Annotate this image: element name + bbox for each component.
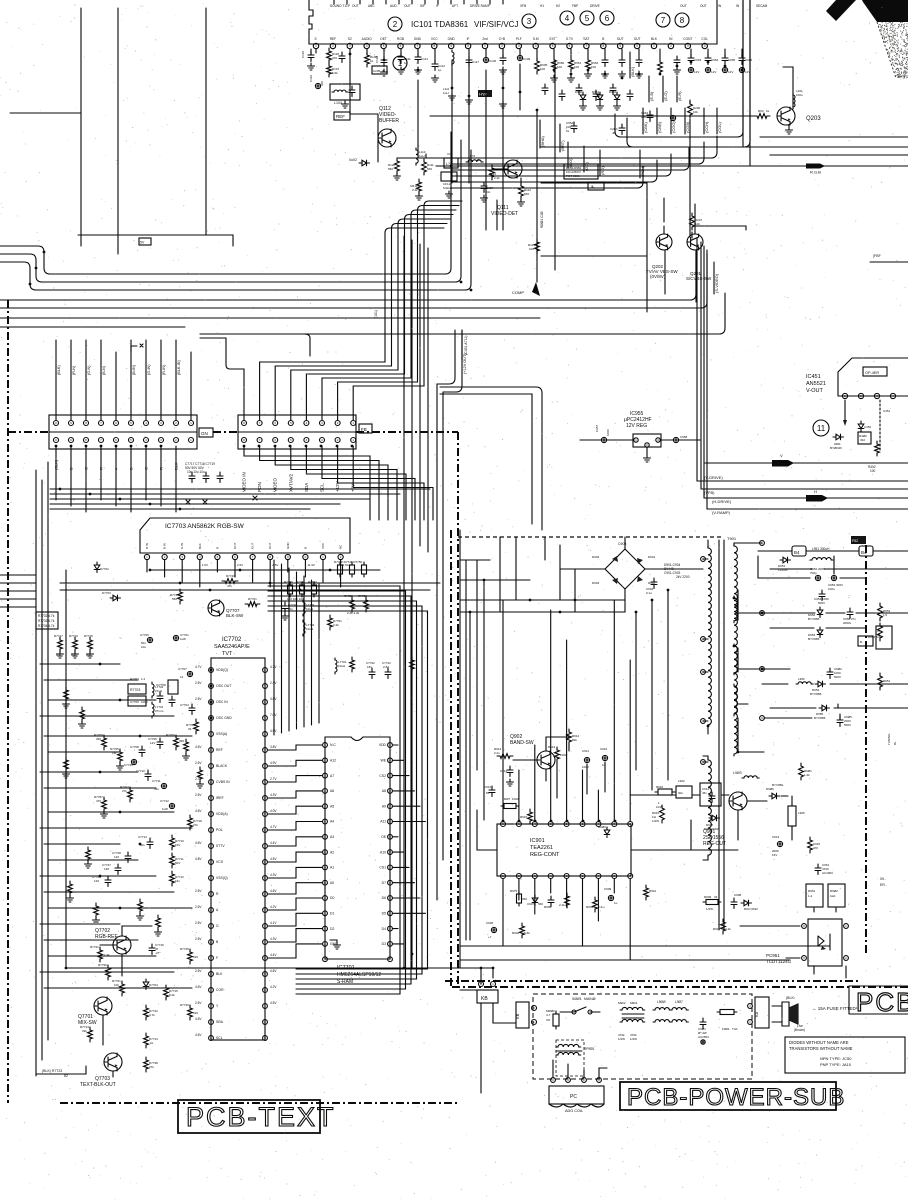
resistor R7724 row right (350, 657, 355, 672)
svg-text:390: 390 (179, 739, 184, 743)
resistor R7721 (98, 947, 103, 962)
label FB box (359, 424, 372, 433)
resistor R7701 (245, 602, 260, 607)
svg-text:D1: D1 (330, 912, 334, 916)
svg-text:12V: 12V (711, 70, 716, 74)
svg-text:L104: L104 (334, 101, 342, 105)
svg-text:AUDIO: AUDIO (362, 37, 373, 41)
PC degauss connector (549, 1086, 604, 1104)
resistor R7722 (144, 1005, 149, 1020)
svg-text:SOUND T.O.P: SOUND T.O.P (330, 4, 350, 8)
svg-text:L902: L902 (678, 779, 685, 783)
IC7702 left pins (209, 668, 214, 1041)
box C- (588, 182, 604, 190)
wire right rect row2 (760, 612, 908, 614)
wire elbow right C (760, 137, 908, 155)
svg-text:H1: H1 (540, 4, 544, 8)
degauss pins row (551, 1078, 556, 1083)
svg-text:RP9Ø1: RP9Ø1 (584, 1047, 595, 1051)
svg-text:D9Ø6: D9Ø6 (766, 787, 774, 791)
svg-text:10uH: 10uH (338, 664, 345, 668)
IC7701 pin labels (330, 743, 387, 946)
svg-text:560: 560 (538, 902, 543, 906)
svg-text:C452: C452 (864, 425, 872, 429)
svg-text:(BRT): (BRT) (560, 140, 565, 151)
svg-text:4.5V: 4.5V (270, 1001, 277, 1005)
net (BO) flag (567, 142, 569, 168)
IC7703 pin voltage labels (202, 563, 349, 567)
capacitors C7727 R7712 (115, 864, 121, 875)
svg-text:BUFFER: BUFFER (379, 118, 399, 124)
svg-text:(CBR): (CBR) (657, 121, 662, 133)
svg-text:PCB: PCB (856, 987, 908, 1017)
svg-text:560: 560 (172, 597, 177, 601)
svg-text:R909: R909 (704, 895, 712, 899)
connector KB2 vertical (516, 1002, 529, 1028)
svg-text:1k: 1k (566, 129, 570, 133)
resistor R962 box (828, 884, 845, 907)
svg-text:A8: A8 (382, 789, 386, 793)
connector CN top pins (54, 421, 194, 426)
svg-text:100: 100 (591, 65, 596, 69)
svg-text:R7790: R7790 (98, 963, 107, 967)
wire line y147 (540, 146, 908, 148)
svg-text:(BHA): (BHA) (540, 135, 545, 147)
svg-text:2.2ω: 2.2ω (598, 905, 605, 909)
svg-text:(G-IN): (G-IN) (147, 364, 151, 375)
svg-text:2.6V: 2.6V (195, 761, 202, 765)
inductor L951 300uH (810, 558, 833, 560)
inductor L7701 27uH (335, 658, 337, 674)
net (E-B) flag (648, 76, 650, 102)
svg-text:27k: 27k (193, 823, 198, 827)
svg-text:COR: COR (216, 988, 224, 992)
svg-text:BLACK: BLACK (216, 764, 228, 768)
svg-text:OUT: OUT (268, 543, 272, 550)
svg-text:2.6V: 2.6V (195, 793, 202, 797)
wire left vertical x118 (117, 8, 119, 254)
inductor L114 (466, 160, 483, 162)
svg-text:47k: 47k (227, 584, 232, 588)
svg-text:2-82: 2-82 (383, 665, 389, 669)
svg-text:VCC: VCC (321, 542, 325, 549)
wire bus L7 lower (200, 293, 725, 334)
svg-text:C114: C114 (421, 57, 428, 61)
svg-text:BYV95E: BYV95E (772, 783, 783, 787)
arrow H flag (806, 495, 828, 502)
svg-text:2.2k: 2.2k (333, 623, 339, 627)
wire power verticals left (470, 537, 545, 940)
svg-text:6: 6 (605, 14, 610, 23)
capacitor C111 (400, 49, 402, 57)
diode D955 BYV95 (819, 705, 830, 711)
svg-text:(COL): (COL) (717, 121, 722, 133)
svg-text:BYV95B: BYV95B (808, 637, 819, 641)
svg-text:GND: GND (448, 37, 456, 41)
svg-text:1000: 1000 (141, 700, 148, 704)
corner black stripe (826, 0, 856, 21)
svg-text:BLK: BLK (651, 37, 658, 41)
svg-text:DIODES WITHOUT NAME ARE: DIODES WITHOUT NAME ARE (789, 1040, 849, 1045)
svg-text:C909: C909 (604, 887, 612, 891)
wires IC7702 to IC7701 (268, 745, 322, 958)
ground below C118 (308, 63, 315, 70)
svg-text:SCL: SCL (216, 1036, 223, 1040)
net (BHA) (539, 120, 541, 148)
connector FB bottom pins (242, 438, 356, 443)
svg-text:BYV95B: BYV95B (814, 716, 825, 720)
svg-text:PON: PON (257, 482, 262, 492)
degauss transformer RP901 (556, 1044, 581, 1047)
svg-text:500V: 500V (844, 723, 851, 727)
svg-text:B IN: B IN (163, 543, 167, 549)
svg-text:F9Ø1: F9Ø1 (722, 1027, 730, 1031)
svg-text:1.2: 1.2 (141, 677, 146, 681)
diode D7703 (110, 595, 121, 601)
svg-text:10k: 10k (693, 110, 698, 114)
arrow V flag (772, 460, 794, 467)
svg-text:S1: S1 (877, 633, 881, 637)
svg-text:VDD: VDD (379, 743, 387, 747)
electrolytic C962 (670, 115, 675, 120)
svg-text:4: 4 (565, 14, 570, 23)
svg-text:2.6V: 2.6V (195, 937, 202, 941)
svg-text:12: 12 (180, 675, 184, 679)
resistor R111 560 (422, 159, 427, 175)
svg-text:390: 390 (96, 737, 101, 741)
svg-text:A3: A3 (330, 835, 334, 839)
svg-text:SAA5246AP/E: SAA5246AP/E (214, 644, 250, 650)
crystal X7701 cluster (168, 680, 178, 694)
resistor R7707 27k (128, 787, 133, 802)
svg-text:A0: A0 (330, 881, 334, 885)
wire FB pin1 route (200, 338, 244, 420)
svg-text:C120: C120 (489, 59, 497, 63)
capacitor C310 360 (315, 83, 320, 88)
svg-text:R7732 4.7k: R7732 4.7k (38, 614, 55, 618)
svg-text:2.6V: 2.6V (195, 681, 202, 685)
capacitor C901 (700, 1018, 706, 1029)
resistor R905 100 (536, 49, 538, 61)
wire Q203 net (430, 67, 793, 116)
IC7702 right pin voltages (270, 665, 277, 1005)
svg-text:(V-DRIVE): (V-DRIVE) (704, 475, 723, 480)
wire bus L1 (0, 132, 451, 274)
connector CN bottom pins (54, 438, 194, 443)
dashed degauss box (556, 1040, 584, 1076)
svg-text:D7703: D7703 (102, 591, 111, 595)
resistors R7752 R7753 (350, 597, 355, 612)
svg-text:AUD: AUD (390, 4, 397, 8)
svg-text:27k: 27k (122, 789, 127, 793)
svg-text:C7711: C7711 (152, 779, 161, 783)
svg-text:1p: 1p (438, 68, 442, 72)
svg-text:C7704: C7704 (180, 703, 189, 707)
svg-text:(101): (101) (374, 310, 378, 318)
svg-text:3k: 3k (477, 158, 481, 162)
svg-text:1000: 1000 (582, 765, 589, 769)
svg-text:D0: D0 (330, 896, 334, 900)
resistor R915 1ohm (660, 805, 665, 823)
wire PC951 nets (740, 908, 846, 978)
svg-text:(FBF: (FBF (873, 254, 881, 258)
svg-text:C965: C965 (728, 58, 736, 62)
svg-text:(S-VIDEO): (S-VIDEO) (714, 273, 719, 293)
svg-text:D904: D904 (592, 555, 600, 559)
wire (V-DRIVE) line (697, 480, 908, 482)
svg-text:C7735: C7735 (124, 763, 133, 767)
circled 2 (388, 17, 402, 31)
wire Q201 collector (695, 204, 746, 234)
capacitor C954 1000 500V (819, 590, 825, 601)
svg-text:(E-G): (E-G) (663, 91, 668, 101)
resistor R206 10k (689, 100, 691, 237)
svg-text:VSS(Q): VSS(Q) (216, 876, 228, 880)
transformer T901 core (719, 540, 724, 930)
IC901 bottom pins (501, 874, 633, 879)
connector CN bottom net labels (54, 459, 179, 470)
svg-text:2.6V: 2.6V (195, 905, 202, 909)
transistor Q7707 BLK-SW (208, 600, 224, 616)
svg-text:4.3V: 4.3V (270, 793, 277, 797)
svg-text:COL: COL (701, 37, 708, 41)
svg-text:B4: B4 (861, 550, 867, 555)
svg-text:Vc: Vc (447, 152, 451, 156)
svg-text:8: 8 (680, 16, 685, 25)
svg-text:A12: A12 (330, 759, 336, 763)
wire (H-DRIVE) line (704, 497, 908, 499)
resistor R120 560 (395, 158, 400, 174)
svg-text:D903: D903 (592, 581, 600, 585)
svg-text:EXT: EXT (549, 37, 555, 41)
svg-text:RØØ1 C2Ø: RØØ1 C2Ø (540, 211, 544, 228)
svg-text:(BLK): (BLK) (630, 66, 635, 77)
svg-text:R7733 4.7k: R7733 4.7k (38, 619, 55, 623)
svg-text:10u: 10u (141, 645, 146, 649)
wire bus L6 lower (0, 318, 540, 327)
IC U-IC901 TEA2261 body (497, 824, 631, 876)
dash-dot border PCB-TEXT left (7, 300, 9, 1103)
resistors R7745 R7746 R7747 (288, 585, 293, 594)
wire pair to +12V OUT (437, 330, 462, 392)
label B4 box a (792, 546, 806, 556)
dash-dot top segment (8, 431, 458, 433)
svg-text:4.6V: 4.6V (195, 745, 202, 749)
svg-text:1k: 1k (766, 109, 770, 113)
svg-text:1000: 1000 (606, 429, 610, 436)
wire power left rails (459, 530, 461, 946)
svg-text:+7: +7 (488, 935, 492, 939)
electrolytic C911 1000 (584, 757, 589, 762)
svg-text:TEA2261: TEA2261 (530, 845, 553, 851)
diode D950 (580, 92, 586, 103)
svg-text:(BLK-IN): (BLK-IN) (177, 359, 181, 375)
svg-text:33: 33 (188, 727, 192, 731)
svg-text:4.5V: 4.5V (270, 857, 277, 861)
svg-text:4.2V: 4.2V (270, 905, 277, 909)
svg-text:POL: POL (216, 828, 223, 832)
svg-text:R7721: R7721 (90, 945, 99, 949)
svg-text:C908: C908 (734, 893, 742, 897)
svg-text:C113: C113 (375, 56, 379, 63)
svg-text:3.8V: 3.8V (270, 745, 277, 749)
svg-text:A10: A10 (380, 850, 386, 854)
wire drops x486-523 (418, 60, 520, 230)
dash-dot border PCB-TEXT right (457, 432, 459, 987)
resistor R950 100 (552, 57, 557, 72)
svg-text:D7: D7 (382, 881, 386, 885)
svg-text:V-OUT: V-OUT (806, 388, 823, 394)
capacitor C7711 33u (161, 783, 166, 788)
diode D905 (532, 895, 538, 906)
transistor Q902 BAND-SW (537, 751, 555, 769)
box C914 45V (700, 783, 721, 806)
delay line L12 (444, 158, 458, 168)
IC955 regulator symbol (633, 434, 661, 447)
IC U-IC7702 SAA5246AP/E body (211, 658, 265, 1040)
net (CCH) flag (703, 108, 705, 134)
svg-text:C7705: C7705 (130, 700, 139, 704)
svg-text:REG-OUT: REG-OUT (703, 841, 726, 847)
svg-text:C964: C964 (711, 58, 719, 62)
svg-text:M902: M902 (618, 1001, 626, 1005)
svg-text:B4: B4 (794, 550, 800, 555)
svg-text:16V: 16V (175, 843, 180, 847)
resistor R903 2.2k (593, 897, 598, 912)
svg-text:B..: B.. (860, 640, 864, 644)
svg-text:TUNING: TUNING (887, 733, 891, 745)
transistor Q201 S/CVBS-SW (687, 234, 703, 250)
svg-text:45v: 45v (702, 791, 707, 795)
svg-text:560: 560 (427, 167, 432, 171)
wire Q202 collector (663, 198, 665, 234)
svg-text:ADG COIL: ADG COIL (565, 1109, 583, 1113)
svg-text:C911: C911 (582, 749, 589, 753)
resistor R63 1k (754, 114, 770, 119)
svg-text:DRIVE: DRIVE (590, 4, 600, 8)
svg-text:4.2V: 4.2V (270, 985, 277, 989)
resistor R7738 27k (144, 1057, 149, 1072)
wire (VFB) line (701, 488, 908, 490)
svg-text:4.6V: 4.6V (270, 969, 277, 973)
diode D952 BYV95B (817, 607, 823, 618)
IC7702 left pin labels (216, 668, 232, 1040)
svg-text:R913: R913 (548, 745, 556, 749)
svg-text:10k: 10k (695, 222, 700, 226)
wire RGB line (436, 165, 908, 167)
svg-text:220: 220 (193, 955, 198, 959)
svg-text:OUT: OUT (634, 37, 641, 41)
svg-text:CS1: CS1 (379, 866, 386, 870)
svg-text:(R-N): (R-N) (72, 365, 76, 375)
svg-text:OSC GND: OSC GND (216, 716, 232, 720)
resistor R7790 (106, 965, 111, 980)
net (E-G) flag (662, 76, 664, 102)
IC7703 pin inner labels (145, 542, 343, 550)
wire vertical x555 (554, 60, 556, 270)
IC101 bottom pin labels (314, 37, 708, 41)
transformer aux coil (708, 758, 711, 857)
IC7703 pins (144, 554, 343, 559)
capacitor C951 (619, 56, 625, 67)
svg-text:82: 82 (64, 1074, 68, 1078)
svg-text:TCDT1124G: TCDT1124G (766, 959, 792, 964)
boxes right edge (876, 626, 892, 649)
svg-text:OSC IN: OSC IN (216, 700, 228, 704)
resistor R118 470 (327, 48, 332, 63)
svg-text:BYV95B: BYV95B (810, 692, 821, 696)
wire loop box AV (541, 183, 647, 312)
wire degauss (553, 1060, 607, 1078)
svg-text:1: 1 (398, 59, 403, 68)
capacitors C7702 C7722 (369, 668, 375, 679)
svg-text:CH: CH (486, 190, 490, 194)
svg-text:STTV: STTV (216, 844, 225, 848)
svg-text:11: 11 (817, 424, 826, 433)
capacitor C113 (383, 49, 385, 59)
svg-text:IC7702: IC7702 (222, 637, 242, 643)
svg-text:100u: 100u (828, 587, 835, 591)
svg-text:C+B: C+B (499, 37, 505, 41)
wire elbow right A (615, 0, 743, 137)
net (S-VIDEO) flag (713, 262, 715, 294)
svg-text:D2: D2 (330, 927, 334, 931)
svg-text:560: 560 (388, 167, 393, 171)
svg-text:IREF: IREF (216, 796, 224, 800)
svg-text:C958: C958 (680, 435, 688, 439)
resistor R915b (528, 809, 533, 824)
svg-text:2000v: 2000v (843, 621, 852, 625)
svg-text:2.7V: 2.7V (270, 777, 277, 781)
wire left horizontal y113 (10, 112, 81, 114)
wire IC901 left vdd (477, 560, 497, 850)
svg-text:(E-R): (E-R) (677, 91, 682, 101)
wire IC955 rail (580, 439, 700, 441)
svg-text:100u: 100u (796, 93, 803, 97)
svg-text:(H-DRIVE): (H-DRIVE) (712, 499, 732, 504)
svg-text:2.6V: 2.6V (195, 697, 202, 701)
svg-text:8.2k: 8.2k (169, 993, 175, 997)
wires left bus into IC7702 (40, 664, 192, 988)
svg-text:(G-N): (G-N) (87, 365, 91, 375)
svg-text:RØ7: RØ7 (504, 797, 511, 801)
capacitor C982 1000 500V (827, 668, 833, 679)
wire bus L4 (0, 252, 696, 300)
transformer pin 2 (701, 637, 706, 642)
svg-text:D3: D3 (382, 942, 386, 946)
inductor L902 box (676, 786, 692, 798)
wire vertical double line B (749, 0, 751, 166)
svg-text:R IN: R IN (145, 543, 149, 549)
svg-text:VDD(A): VDD(A) (216, 812, 228, 816)
diode D907 R01 (709, 815, 720, 821)
svg-text:09..: 09.. (880, 877, 886, 881)
svg-text:RGB-REF: RGB-REF (95, 934, 118, 940)
diode D452 (858, 421, 864, 432)
capacitor C111a (339, 52, 345, 63)
svg-text:2: 2 (393, 20, 398, 29)
wire left drop to KB (65, 570, 67, 968)
svg-text:R911: R911 (713, 927, 720, 931)
svg-text:L9Ø3: L9Ø3 (733, 771, 742, 775)
IC U-IC7703 AN5862K RGB-SW body (140, 518, 350, 553)
svg-text:REF: REF (336, 114, 345, 119)
connector FB top pins (242, 421, 356, 426)
wires RAM right pin stubs (393, 745, 426, 944)
wire IC451 pin1 down arrow (844, 400, 846, 420)
wire elbow right B (627, 0, 750, 147)
svg-text:H2: H2 (556, 4, 560, 8)
